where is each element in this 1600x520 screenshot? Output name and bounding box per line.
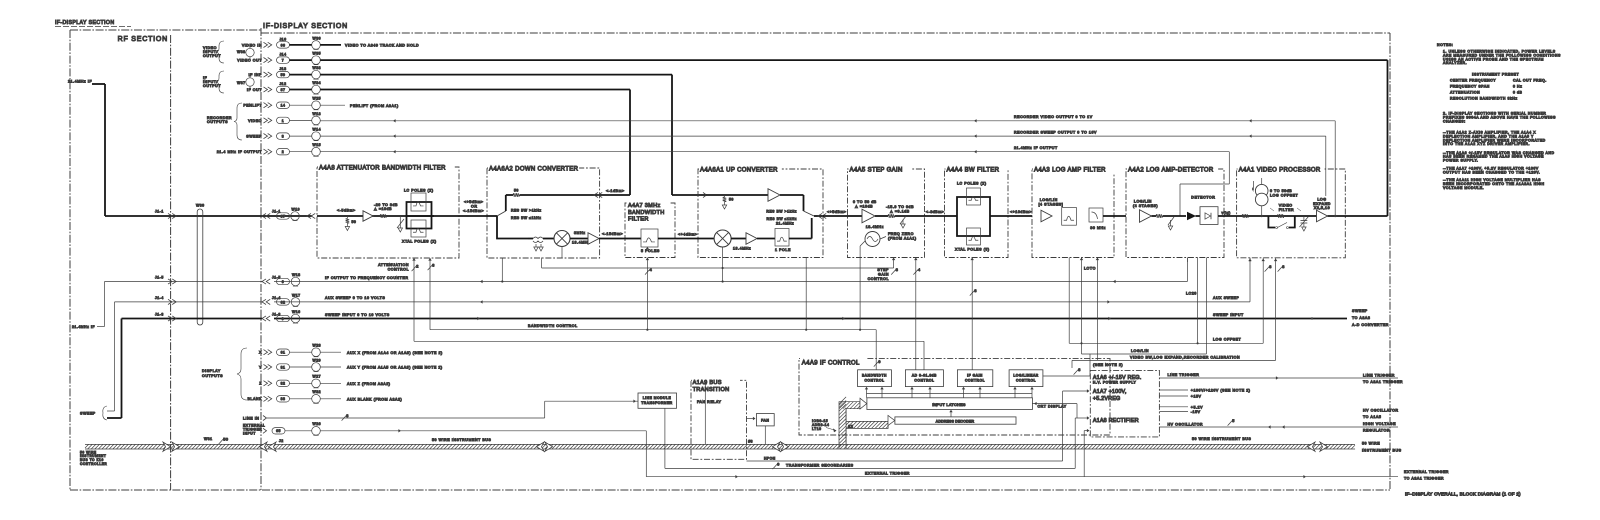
node A4A8 input chevrons bbox=[307, 213, 311, 218]
svg-text:IF-DISPLAY SECTION: IF-DISPLAY SECTION bbox=[263, 23, 348, 30]
wire attenuation control line bbox=[412, 258, 924, 370]
svg-text:ADDRESS DECODER: ADDRESS DECODER bbox=[936, 419, 975, 423]
svg-text:POWER SUPPLY.: POWER SUPPLY. bbox=[1443, 159, 1478, 163]
op-amp block A1A9 bus transition bbox=[691, 377, 747, 459]
svg-text:<+4dBm>: <+4dBm> bbox=[678, 232, 698, 236]
svg-text:FILTER: FILTER bbox=[628, 217, 649, 223]
svg-text:5: 5 bbox=[1232, 419, 1235, 423]
node display outputs group label bbox=[202, 348, 247, 400]
svg-text:△ =10dB: △ =10dB bbox=[374, 207, 392, 211]
svg-text:W15: W15 bbox=[313, 143, 322, 147]
svg-text:LOG OFFSET: LOG OFFSET bbox=[1213, 338, 1242, 342]
svg-text:CONTROL: CONTROL bbox=[965, 378, 985, 382]
svg-text:+15V: +15V bbox=[1191, 395, 1202, 399]
svg-text:+5.2V: +5.2V bbox=[1191, 405, 1203, 409]
op-amp block A4A8 attenuator bandwidth filter bbox=[317, 167, 459, 258]
wire recorder video output line bbox=[320, 115, 1335, 216]
svg-text:J13: J13 bbox=[279, 67, 286, 71]
wire IF OUT line from down-converter bypass bbox=[320, 90, 630, 196]
svg-text:A-D CONVERTER: A-D CONVERTER bbox=[1352, 323, 1389, 327]
svg-text:LOG/LIN: LOG/LIN bbox=[1134, 200, 1152, 204]
wire A4A6A1 high path bbox=[706, 194, 768, 196]
node connector W27 Z display output bbox=[259, 375, 390, 388]
svg-text:FAN RELAY: FAN RELAY bbox=[697, 400, 722, 404]
svg-text:W33: W33 bbox=[313, 66, 322, 70]
svg-text:J1-5: J1-5 bbox=[155, 276, 164, 280]
svg-text:RESOLUTION BANDWIDTH 3kHz: RESOLUTION BANDWIDTH 3kHz bbox=[1450, 97, 1518, 101]
svg-text:LOG/LIN: LOG/LIN bbox=[1131, 349, 1149, 353]
svg-text:HIGH VOLTAGE: HIGH VOLTAGE bbox=[1363, 422, 1396, 426]
op-amp A4A1 log expand amp bbox=[1313, 197, 1387, 221]
svg-text:IF INP: IF INP bbox=[249, 73, 263, 77]
svg-text:(SEE NOTE 2): (SEE NOTE 2) bbox=[1093, 363, 1123, 367]
svg-text:OUTPUT HAS BEEN CHANGED TO THE: OUTPUT HAS BEEN CHANGED TO THE +120V. bbox=[1443, 170, 1540, 174]
svg-text:J14: J14 bbox=[279, 53, 286, 57]
svg-text:PENLIFT (FROM A3A1): PENLIFT (FROM A3A1) bbox=[350, 104, 399, 108]
wire log offset line bbox=[1069, 258, 1263, 345]
op-amp block A4A6A1 up converter bbox=[698, 169, 823, 258]
svg-text:1: 1 bbox=[282, 119, 284, 123]
svg-text:22: 22 bbox=[848, 424, 853, 428]
wire IF INP line to up-converter bbox=[320, 75, 706, 195]
node IF input/output group label bbox=[203, 71, 224, 93]
node IF gain control box bbox=[957, 370, 992, 387]
svg-text:#8: #8 bbox=[748, 440, 753, 444]
transistor A4A6A1 mixer bbox=[714, 230, 751, 251]
svg-text:21.4MHz IF: 21.4MHz IF bbox=[68, 80, 92, 84]
node A4A6A2 res bw switch bbox=[487, 209, 542, 221]
svg-text:A4A5 STEP GAIN: A4A5 STEP GAIN bbox=[850, 167, 903, 173]
svg-text:TO A3A8: TO A3A8 bbox=[1352, 316, 1370, 320]
wire A4A6A1 res bw control bbox=[805, 258, 807, 330]
svg-text:RES BW ≤1kHz: RES BW ≤1kHz bbox=[766, 217, 797, 221]
svg-text:NOTES:: NOTES: bbox=[1437, 43, 1453, 47]
svg-text:BANDWIDTH: BANDWIDTH bbox=[862, 373, 887, 377]
wire IF-display section border bbox=[70, 28, 1390, 490]
node W37 loop cable bbox=[237, 75, 254, 90]
svg-text:J1-3: J1-3 bbox=[155, 313, 164, 317]
svg-text:GAIN: GAIN bbox=[878, 273, 889, 277]
node bus labels bbox=[80, 437, 1402, 466]
svg-text:△ =10dB: △ =10dB bbox=[855, 205, 873, 209]
svg-text:LINE IN: LINE IN bbox=[243, 417, 259, 421]
op-amp A4A6A2 output amp bbox=[570, 232, 625, 244]
svg-text:4: 4 bbox=[650, 268, 653, 272]
svg-text:ATTENUATION: ATTENUATION bbox=[378, 263, 409, 267]
svg-text:-20 TO 8dB: -20 TO 8dB bbox=[374, 203, 398, 207]
svg-text:<-15dBm>: <-15dBm> bbox=[602, 232, 623, 236]
node A4A5 18.4MHz oscillator bbox=[860, 225, 884, 246]
wire +5.2V output stub bbox=[1159, 405, 1203, 414]
svg-text:W14: W14 bbox=[313, 128, 322, 132]
svg-text:SWEEP INPUT 0 TO 10 VOLTS: SWEEP INPUT 0 TO 10 VOLTS bbox=[325, 313, 390, 317]
node A4A1 video filter bbox=[1268, 204, 1301, 229]
op-amp A4A6A1 amplifier bbox=[768, 189, 804, 211]
wire CRT display line bbox=[1032, 402, 1077, 418]
wire 21.4MHz IF main input bbox=[68, 80, 312, 219]
svg-text:7: 7 bbox=[282, 59, 284, 63]
node address bus labels bbox=[812, 419, 853, 432]
resistor A4A5 fine attenuator bbox=[886, 205, 925, 228]
svg-text:REGULATOR: REGULATOR bbox=[1363, 428, 1390, 432]
svg-text:A1A7 +100V,: A1A7 +100V, bbox=[1093, 389, 1127, 395]
svg-text:50 WIRE INSTRUMENT BUS: 50 WIRE INSTRUMENT BUS bbox=[1192, 437, 1251, 441]
node A4A6A1 input arrow bbox=[703, 192, 707, 197]
svg-text:AUX X (FROM A1A4 OR A1A3) (SEE: AUX X (FROM A1A4 OR A1A3) (SEE NOTE 2) bbox=[347, 351, 443, 355]
svg-text:9: 9 bbox=[282, 317, 284, 321]
svg-text:IF OUTPUT TO FREQUENCY COUNTER: IF OUTPUT TO FREQUENCY COUNTER bbox=[325, 276, 409, 280]
svg-text:INPUT LATCHES: INPUT LATCHES bbox=[932, 403, 966, 407]
svg-text:J1-4: J1-4 bbox=[155, 296, 164, 300]
svg-text:A4A6A2 DOWN CONVERTER: A4A6A2 DOWN CONVERTER bbox=[489, 166, 579, 172]
svg-text:W36: W36 bbox=[313, 36, 322, 40]
svg-text:X: X bbox=[259, 351, 262, 355]
svg-text:BANDWIDTH: BANDWIDTH bbox=[628, 210, 665, 216]
svg-text:18.4MHz: 18.4MHz bbox=[572, 240, 590, 244]
wire A4A6A1 mixer LO vertical bbox=[722, 248, 724, 283]
svg-text:W13: W13 bbox=[313, 112, 322, 116]
diode A4A2 detector bbox=[1187, 195, 1237, 224]
svg-text:3: 3 bbox=[1269, 265, 1272, 269]
node attenuation control label bbox=[378, 263, 435, 271]
svg-text:AUX BLANK (FROM A3A2): AUX BLANK (FROM A3A2) bbox=[347, 397, 402, 401]
svg-text:FREQ ZERO: FREQ ZERO bbox=[888, 232, 914, 236]
node freq zero label bbox=[880, 232, 917, 241]
svg-text:EXTERNAL TRIGGER: EXTERNAL TRIGGER bbox=[865, 472, 910, 476]
svg-text:W38: W38 bbox=[237, 50, 246, 54]
svg-text:STEP: STEP bbox=[877, 268, 889, 272]
svg-text:VIDEO: VIDEO bbox=[248, 119, 262, 123]
node connector J1-4 oval + cable W17 bbox=[277, 293, 301, 306]
op-amp A4A6A1 post-mixer amp bbox=[731, 233, 775, 244]
node connector W15 21.4 MHz IF OUTPUT bbox=[217, 143, 321, 156]
node A4A6A1 res bw switch bbox=[766, 209, 826, 221]
svg-text:LOG/LIN: LOG/LIN bbox=[1040, 198, 1058, 202]
svg-text:LINE TRIGGER: LINE TRIGGER bbox=[1363, 374, 1395, 378]
svg-text:A4A3 LOG AMP FILTER: A4A3 LOG AMP FILTER bbox=[1034, 167, 1106, 173]
svg-text:XTAL POLES (3): XTAL POLES (3) bbox=[955, 248, 990, 252]
op-amp block A4A6A2 down converter bbox=[487, 168, 600, 258]
svg-text:6: 6 bbox=[282, 280, 284, 284]
svg-text:W34: W34 bbox=[313, 81, 322, 85]
svg-text:59: 59 bbox=[281, 73, 286, 77]
wire LINE IN bbox=[243, 400, 638, 421]
node bandwidth control box bbox=[858, 370, 892, 387]
svg-text:IF-DISPLAY SECTION: IF-DISPLAY SECTION bbox=[55, 20, 114, 26]
svg-text:21.4MHz IF: 21.4MHz IF bbox=[72, 325, 95, 329]
svg-text:EXTERNAL TRIGGER: EXTERNAL TRIGGER bbox=[1404, 470, 1449, 474]
node address decoder bar bbox=[895, 417, 1016, 424]
wire video out line (thick, from A4A1 output loop) bbox=[320, 60, 1387, 216]
wire HPON line bbox=[747, 389, 1090, 461]
wire hatched address bus elbow bbox=[839, 397, 895, 449]
svg-text:87: 87 bbox=[281, 88, 286, 92]
resistor A4A2 output network bbox=[1156, 214, 1186, 230]
svg-text:W30: W30 bbox=[196, 204, 205, 208]
svg-text:TO A3A1 TRIGGER: TO A3A1 TRIGGER bbox=[1404, 477, 1444, 481]
svg-text:4: 4 bbox=[918, 268, 921, 272]
wire J1-5 IF output to frequency counter bbox=[72, 258, 1187, 330]
capacitor A4A3 30MHz lowpass bbox=[1089, 208, 1126, 230]
svg-text:FILTER: FILTER bbox=[1279, 208, 1294, 212]
svg-text:W17: W17 bbox=[292, 293, 301, 297]
svg-text:50 WIRE INSTRUMENT BUS: 50 WIRE INSTRUMENT BUS bbox=[432, 438, 491, 442]
svg-text:CAL OUT FREQ.: CAL OUT FREQ. bbox=[1513, 79, 1547, 83]
svg-text:VOLTAGE MODULE.: VOLTAGE MODULE. bbox=[1443, 186, 1484, 190]
resistor A4A8 50 ohm input termination bbox=[345, 216, 356, 231]
wire bandwidth control to A4A9 bbox=[874, 330, 881, 370]
svg-text:14: 14 bbox=[281, 104, 286, 108]
op-amp A4A8 input amplifier bbox=[363, 211, 373, 221]
svg-text:<+5dBm>: <+5dBm> bbox=[827, 210, 847, 214]
node SWEEP label (RF side) bbox=[80, 406, 107, 420]
wire transformer secondaries bbox=[665, 408, 1090, 469]
svg-text:CONTROL: CONTROL bbox=[914, 378, 934, 382]
svg-text:RECORDER VIDEO OUTPUT 0 TO 1V: RECORDER VIDEO OUTPUT 0 TO 1V bbox=[1014, 115, 1093, 119]
svg-text:<+5dBm>: <+5dBm> bbox=[464, 200, 484, 204]
svg-text:W31: W31 bbox=[204, 437, 213, 441]
wire J1-4 aux sweep bbox=[107, 258, 1250, 411]
svg-text:AUX Y (FROM A1A5 OR A1A3) (SEE: AUX Y (FROM A1A5 OR A1A3) (SEE NOTE 2) bbox=[347, 366, 443, 370]
svg-text:VIDEO IN: VIDEO IN bbox=[242, 43, 262, 47]
svg-text:50 WIRE: 50 WIRE bbox=[1362, 441, 1380, 445]
svg-text:BLANK: BLANK bbox=[247, 397, 262, 401]
svg-text:3: 3 bbox=[346, 414, 349, 418]
svg-text:BANDWIDTH CONTROL: BANDWIDTH CONTROL bbox=[528, 324, 578, 328]
wire decoder to latches arrow bbox=[949, 410, 952, 417]
svg-text:18.4MHz: 18.4MHz bbox=[866, 225, 884, 229]
node connector W14 SWEEP bbox=[246, 128, 321, 141]
svg-text:61: 61 bbox=[281, 351, 286, 355]
svg-text:<-15dBm>: <-15dBm> bbox=[463, 209, 484, 213]
wire recorder sweep output line bbox=[320, 131, 1326, 196]
svg-text:RES BW ≤1kHz: RES BW ≤1kHz bbox=[511, 216, 542, 220]
svg-text:8: 8 bbox=[1078, 368, 1081, 372]
svg-text:CONTROL: CONTROL bbox=[865, 378, 885, 382]
svg-text:TRANSFORMER SECONDARIES: TRANSFORMER SECONDARIES bbox=[786, 464, 854, 468]
svg-text:A1A9 BUS: A1A9 BUS bbox=[693, 380, 722, 386]
wire fan power drop bbox=[764, 426, 766, 444]
resistor A4A6A1 50 ohm bbox=[722, 195, 734, 209]
capacitor A4A4 LC/XTAL parallel filter bbox=[945, 182, 1033, 252]
svg-text:LOG: LOG bbox=[1317, 197, 1326, 201]
node W38 loop cable bbox=[237, 45, 254, 60]
node A4A8 variable attenuator stub bbox=[397, 216, 404, 232]
wire A4A4 bw filter control bbox=[970, 258, 977, 370]
wire A4A6A1 to A4A5 bbox=[823, 210, 848, 216]
node cable W19 bbox=[291, 212, 300, 221]
node A4A1 log offset current source bbox=[1252, 178, 1299, 217]
op-amp block A4A1 video processor bbox=[1237, 169, 1346, 258]
svg-text:LOG/LINEAR: LOG/LINEAR bbox=[1013, 373, 1038, 377]
wire A1A8 aux input bbox=[1084, 429, 1089, 477]
svg-text:SWEEP: SWEEP bbox=[1352, 309, 1368, 313]
transistor A4A6A2 mixer bbox=[543, 231, 590, 247]
svg-text:A4A1 VIDEO PROCESSOR: A4A1 VIDEO PROCESSOR bbox=[1239, 167, 1321, 173]
op-amp block A4A7 3MHz bandwidth filter bbox=[625, 200, 675, 258]
svg-text:OR: OR bbox=[471, 204, 478, 208]
op-amp block A4A5 step gain bbox=[848, 169, 925, 258]
svg-text:CONTROL: CONTROL bbox=[388, 268, 409, 272]
svg-text:50: 50 bbox=[352, 220, 357, 224]
svg-text:AUX Z (FROM A3A2): AUX Z (FROM A3A2) bbox=[347, 382, 391, 386]
wire external trigger bottom line bbox=[646, 470, 1449, 481]
svg-text:INSTRUMENT PRESET: INSTRUMENT PRESET bbox=[1472, 73, 1520, 77]
svg-text:50: 50 bbox=[514, 189, 519, 193]
svg-text:88: 88 bbox=[281, 397, 286, 401]
op-amp A4A3 log/lin amp bbox=[1039, 198, 1064, 222]
svg-text:XTAL POLES (2): XTAL POLES (2) bbox=[402, 240, 437, 244]
svg-text:2: 2 bbox=[282, 150, 284, 154]
svg-text:82: 82 bbox=[281, 382, 286, 386]
svg-text:50: 50 bbox=[223, 437, 228, 441]
svg-text:FREQUENCY SPAN: FREQUENCY SPAN bbox=[1450, 85, 1490, 89]
wire A4A6A2 low path bbox=[497, 216, 528, 239]
wire A4A5 osc vertical bbox=[859, 246, 861, 330]
svg-text:W25: W25 bbox=[313, 97, 322, 101]
wire A4A7 bandwidth select bbox=[645, 258, 652, 330]
op-amp block A4A3 log amp filter bbox=[1032, 169, 1114, 258]
svg-text:H.V. POWER SUPPLY: H.V. POWER SUPPLY bbox=[1093, 381, 1137, 385]
wire LOTO lines from A4A3 bbox=[1069, 258, 1099, 361]
node connector W34 IF OUT bbox=[247, 81, 321, 94]
svg-text:LOG OFFSET: LOG OFFSET bbox=[1270, 194, 1299, 198]
capacitor A4A1 variable video cap bbox=[1300, 216, 1309, 231]
svg-text:(FROM A1A1): (FROM A1A1) bbox=[888, 236, 917, 240]
wire A1A9 internal bus drop bbox=[704, 380, 753, 444]
op-amp block A1A6/A1A7/A1A8 power supply bbox=[1090, 363, 1159, 437]
wire RF section border bbox=[70, 30, 262, 490]
svg-text:IF OUT: IF OUT bbox=[247, 88, 262, 92]
op-amp A4A2 log/lin amp bbox=[1133, 200, 1158, 223]
svg-text:W35: W35 bbox=[313, 52, 322, 56]
node connector W35 VIDEO OUT bbox=[237, 52, 321, 65]
svg-text:LINE MODULE: LINE MODULE bbox=[643, 396, 672, 400]
svg-text:LC20: LC20 bbox=[1186, 292, 1197, 296]
svg-text:W28: W28 bbox=[313, 344, 322, 348]
svg-text:LC POLES (2): LC POLES (2) bbox=[957, 182, 987, 186]
node cable W30 bbox=[196, 204, 205, 326]
svg-text:CENTER FREQUENCY: CENTER FREQUENCY bbox=[1450, 79, 1496, 83]
wire video to A349 stub bbox=[320, 44, 419, 48]
svg-text:W26: W26 bbox=[313, 422, 322, 426]
svg-text:X2,5,10: X2,5,10 bbox=[1314, 206, 1330, 210]
svg-text:81: 81 bbox=[281, 365, 286, 369]
svg-text:A4A7 3MHz: A4A7 3MHz bbox=[628, 203, 661, 209]
svg-text:62: 62 bbox=[281, 300, 286, 304]
svg-text:HV OSCILLATOR: HV OSCILLATOR bbox=[1363, 409, 1399, 413]
svg-text:TO A1A5: TO A1A5 bbox=[1363, 415, 1381, 419]
svg-text:AD 0-61.8dB: AD 0-61.8dB bbox=[912, 373, 937, 377]
svg-text:A4A8 ATTENUATOR BANDWIDTH FILT: A4A8 ATTENUATOR BANDWIDTH FILTER bbox=[319, 165, 446, 171]
svg-text:HV OSCILLATOR: HV OSCILLATOR bbox=[1168, 422, 1204, 426]
svg-text:3: 3 bbox=[432, 263, 435, 267]
svg-text:J1-5: J1-5 bbox=[272, 276, 281, 280]
svg-text:<+10dBm>: <+10dBm> bbox=[1010, 210, 1032, 214]
svg-text:0 Hz: 0 Hz bbox=[1513, 85, 1522, 89]
svg-text:J2: J2 bbox=[279, 439, 284, 443]
svg-text:-15V: -15V bbox=[1191, 410, 1201, 414]
wire external trigger input bbox=[243, 422, 646, 477]
svg-text:RF SECTION: RF SECTION bbox=[118, 36, 168, 43]
node connector W13 VIDEO bbox=[248, 112, 321, 125]
svg-text:TRANSFORMER: TRANSFORMER bbox=[641, 401, 673, 405]
svg-text:DETECTOR: DETECTOR bbox=[1191, 195, 1215, 199]
wire penlift stub bbox=[320, 104, 398, 108]
wire A4A5 to A4A4 bbox=[925, 210, 945, 216]
wire +100V output stub bbox=[1159, 389, 1250, 399]
wire A4A1 control drops bbox=[1248, 258, 1285, 272]
wire HV oscillator output bbox=[1159, 409, 1398, 433]
node log/linear control box bbox=[1009, 370, 1043, 387]
node connector W33 IF INP bbox=[249, 66, 322, 79]
svg-text:[4 STAGES]: [4 STAGES] bbox=[1039, 202, 1064, 206]
node A4A6A2 input level label bbox=[463, 200, 484, 213]
svg-text:RECORDER SWEEP OUTPUT 0 TO 10V: RECORDER SWEEP OUTPUT 0 TO 10V bbox=[1014, 131, 1097, 135]
node attenuation 0-61.8dB control box bbox=[905, 370, 943, 387]
svg-text:8: 8 bbox=[1282, 265, 1285, 269]
wire log/linear to A1A6 bbox=[1043, 354, 1090, 376]
svg-text:OUTPUTS: OUTPUTS bbox=[202, 374, 223, 378]
node connector J1-5 oval + cable W18 bbox=[277, 273, 301, 286]
svg-text:IF GAIN: IF GAIN bbox=[967, 373, 983, 377]
wire bandwidth control line bbox=[428, 258, 876, 331]
svg-text:1 POLE: 1 POLE bbox=[775, 248, 791, 252]
op-amp block A4A2 log amp-detector bbox=[1126, 169, 1224, 258]
svg-text:IF–DISPLAY OVERALL, BLOCK DIAG: IF–DISPLAY OVERALL, BLOCK DIAGRAM (1 OF … bbox=[1405, 492, 1521, 497]
node notes block bbox=[1437, 43, 1561, 190]
svg-text:<-5dBm>: <-5dBm> bbox=[337, 209, 356, 213]
svg-text:30 MHz: 30 MHz bbox=[1090, 226, 1106, 230]
capacitor A4A6A1 21.4MHz 1-pole filter bbox=[775, 218, 812, 252]
svg-text:<-1dBm>: <-1dBm> bbox=[606, 189, 625, 193]
svg-text:VIDEO TO A349 TRACK AND HOLD: VIDEO TO A349 TRACK AND HOLD bbox=[345, 44, 419, 48]
wire log/lin line bbox=[1082, 258, 1207, 355]
svg-text:0 dB: 0 dB bbox=[1513, 91, 1523, 95]
svg-text:+5.2VREG: +5.2VREG bbox=[1093, 396, 1121, 402]
node recorder outputs group label bbox=[207, 103, 242, 140]
node connector W25 PENLIFT bbox=[243, 97, 321, 110]
node line module transformer box bbox=[638, 393, 677, 408]
node A4A8 gain label bbox=[374, 203, 398, 211]
svg-text:CONTROLLER: CONTROLLER bbox=[80, 462, 107, 466]
op-amp A4A5 step gain amp bbox=[848, 200, 889, 223]
wire step gain control 3 bbox=[868, 258, 899, 282]
wire 50-wire instrument bus bbox=[85, 442, 1355, 451]
capacitor A4A8 LC/XTAL parallel filter bbox=[402, 189, 437, 244]
wire J1-3 sweep input (thick) bbox=[107, 309, 1389, 418]
resistor A4A1 input bbox=[1242, 214, 1248, 218]
node connector J1-1 oval bbox=[277, 213, 290, 219]
wire A4A2 21.4 output tap bbox=[1186, 258, 1188, 263]
svg-text:2: 2 bbox=[416, 264, 419, 268]
resistor A4A8 attenuator bbox=[380, 214, 386, 218]
svg-text:+100V/+120V (SEE NOTE 2): +100V/+120V (SEE NOTE 2) bbox=[1191, 389, 1251, 393]
node connector W32 BLANK display output bbox=[247, 390, 402, 403]
svg-text:A4A9 IF CONTROL: A4A9 IF CONTROL bbox=[802, 360, 860, 366]
node video input/output group label bbox=[203, 41, 224, 63]
svg-text:△ =0.1dB: △ =0.1dB bbox=[890, 209, 910, 213]
svg-text:J1-4: J1-4 bbox=[272, 296, 281, 300]
svg-text:65: 65 bbox=[276, 429, 281, 433]
wire A4A6A2 LO vertical bbox=[501, 247, 562, 283]
svg-text:21.4MHz: 21.4MHz bbox=[776, 221, 794, 225]
svg-text:A4A2 LOG AMP-DETECTOR: A4A2 LOG AMP-DETECTOR bbox=[1128, 167, 1214, 173]
node connector J1-3 oval + cable W16 bbox=[277, 310, 301, 323]
svg-text:INPUT: INPUT bbox=[243, 432, 256, 436]
svg-text:SWEEP: SWEEP bbox=[246, 135, 262, 139]
svg-text:5 POLES: 5 POLES bbox=[641, 249, 660, 253]
